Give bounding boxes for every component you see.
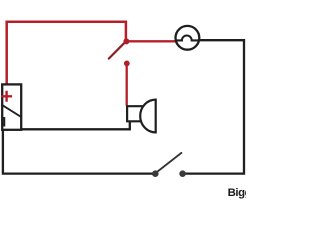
battery B1 negative terminal mark <box>3 117 5 127</box>
wire: battery right side to loudspeaker bottom terminal <box>21 121 130 129</box>
wire: lamp L1 right, down right side, along bottom to switch S2 right contact <box>183 40 244 173</box>
battery B1 <box>1 84 21 129</box>
battery B1 positive terminal label "+" <box>1 91 12 102</box>
switch S1 blade (open, red) <box>109 43 125 59</box>
watermark text "Biggs" <box>228 187 258 199</box>
lamp L1 <box>176 26 200 50</box>
node: S2 left contact <box>152 170 159 177</box>
node: S1 bottom contact <box>124 61 130 67</box>
svg-text:Biggs: Biggs <box>228 187 246 199</box>
node: S1 top contact <box>123 38 129 44</box>
wire: S1 bottom contact down to loudspeaker top terminal (red) <box>126 64 128 106</box>
node: S2 right contact <box>179 170 186 177</box>
wire: battery + up, across top, down to switch S1 top contact (red) <box>7 22 126 85</box>
wire: battery - down left side and along bottom to switch S2 <box>3 130 155 174</box>
loudspeaker LS1 <box>126 100 156 133</box>
switch S2 blade (open, bottom) <box>156 153 182 173</box>
wire: S1 top contact to lamp L1 (red) <box>127 40 175 42</box>
